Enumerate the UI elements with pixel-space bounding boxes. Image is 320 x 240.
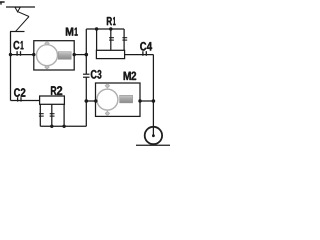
node bus-C1: [9, 53, 12, 56]
resistor R1: [96, 50, 124, 58]
pantograph base line: [10, 31, 25, 33]
node M1 right pin: [73, 53, 76, 56]
resistor R2: [40, 96, 65, 104]
wire R2 branch left: [39, 104, 41, 126]
capacitor C1: [17, 51, 20, 56]
wire C3 upper stub: [85, 55, 87, 75]
wire R1 branch right: [123, 29, 125, 50]
wheel gauge axle line: [152, 126, 154, 135]
wire R1 branch left: [96, 29, 98, 50]
node R1 tap mid: [109, 27, 112, 30]
label M2: [124, 72, 137, 80]
wire right bus down to gauge: [152, 55, 154, 136]
capacitor C3: [83, 74, 90, 77]
label M1: [66, 28, 78, 36]
wire left bus: [10, 32, 12, 101]
pantograph arm lower: [16, 17, 29, 32]
node right bus / M2 out: [152, 99, 156, 103]
wire M2 output: [140, 100, 153, 102]
capacitor C4: [143, 51, 146, 56]
node R1 tap left: [95, 27, 98, 30]
node M2 left pin: [94, 99, 97, 102]
wheel gauge circle: [145, 127, 162, 144]
wire C4 branch: [125, 54, 154, 56]
wire link to M2: [86, 100, 95, 102]
node center junction: [85, 53, 89, 57]
wire bottom rail: [40, 125, 86, 127]
pantograph shoe triangle: [15, 7, 20, 12]
pantograph arm upper: [18, 12, 30, 17]
wire R2 branch mid: [51, 104, 53, 126]
capacitor on R2 left branch: [39, 114, 44, 116]
frame corner mark (top-left): [0, 1, 5, 4]
wheel gauge center dot: [152, 134, 155, 137]
motor M1: [34, 41, 74, 70]
label C2: [14, 88, 25, 97]
label C3: [91, 70, 102, 79]
node rail right tap: [62, 125, 65, 128]
wire C1 branch: [11, 54, 35, 56]
capacitor on R1 right branch: [122, 38, 127, 40]
wire C2 branch: [11, 100, 40, 102]
node M2 right pin: [138, 99, 141, 102]
capacitor on R2 mid branch: [50, 114, 55, 116]
wire R2 branch right: [63, 104, 65, 126]
wire R1 top bus: [86, 28, 124, 30]
wire C3 riser: [85, 77, 87, 126]
label R1: [107, 17, 116, 25]
label R2: [51, 86, 62, 95]
wire riser to R1 top: [85, 29, 87, 55]
node C3 bottom junction: [85, 99, 89, 103]
pantograph contact line: [6, 6, 35, 8]
wire R1 branch mid: [110, 29, 112, 50]
node M1 left pin: [32, 53, 35, 56]
wire M1 output: [74, 54, 86, 56]
label C4: [140, 42, 152, 51]
label C1: [14, 41, 24, 50]
node rail mid tap: [50, 125, 53, 128]
capacitor C2: [18, 97, 21, 101]
capacitor on R1 mid branch: [109, 38, 114, 40]
rail line: [136, 144, 170, 146]
motor M2: [96, 83, 141, 116]
